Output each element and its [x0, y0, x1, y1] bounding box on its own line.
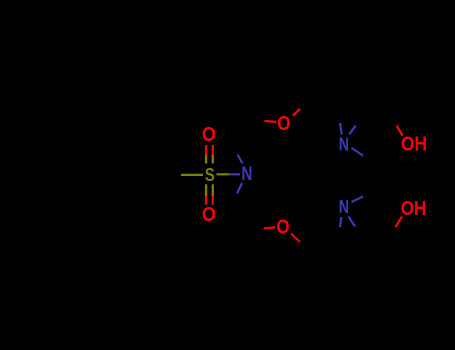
- wire N-C bond up-left, blue half: [238, 155, 243, 164]
- S=O double bond top, red halves: [206, 145, 213, 155]
- wire C-S bond (sulfur half, olive): [181, 174, 203, 176]
- svg-text:O: O: [202, 124, 216, 146]
- svg-text:N: N: [241, 164, 252, 185]
- svg-text:S: S: [205, 164, 215, 185]
- wire S-N bond, nitrogen half blue: [229, 173, 240, 175]
- wire C-O bond down-right of bottom ether O, red half: [291, 234, 300, 243]
- svg-text:OH: OH: [401, 198, 427, 220]
- svg-text:O: O: [202, 204, 216, 226]
- svg-text:O: O: [276, 216, 289, 238]
- wire C-O bond up-right of top ether O, red half: [293, 109, 300, 116]
- S=O double bond top, olive halves: [206, 155, 213, 164]
- svg-text:N: N: [339, 196, 349, 217]
- wire N2-C bond down-right, blue half: [349, 217, 356, 227]
- wire N1-C bond up-left vertical, blue half: [340, 123, 342, 135]
- wire C-O bond left of top ether O, red half: [265, 121, 277, 122]
- svg-text:OH: OH: [401, 134, 427, 156]
- svg-text:O: O: [277, 113, 290, 135]
- wire C-OH bond top, red half: [397, 126, 403, 136]
- S=O double bond bottom, olive halves: [206, 184, 213, 196]
- wire S-N bond, sulfur half olive: [217, 173, 230, 175]
- wire C-O bond left of bottom ether O, red half: [264, 227, 276, 228]
- S=O double bond bottom, red halves: [206, 196, 213, 205]
- wire C-OH bond bottom, red half: [396, 217, 403, 228]
- svg-text:N: N: [339, 133, 349, 154]
- wire N2-C bond up-right, blue half: [352, 197, 364, 203]
- wire N-C bond down-left, blue half: [237, 183, 242, 194]
- wire N2-C bond down-left vertical, blue half: [340, 217, 341, 227]
- wire N1-C bond up-right, blue half: [349, 126, 356, 135]
- wire N1-C bond down-right, blue half: [352, 148, 364, 156]
